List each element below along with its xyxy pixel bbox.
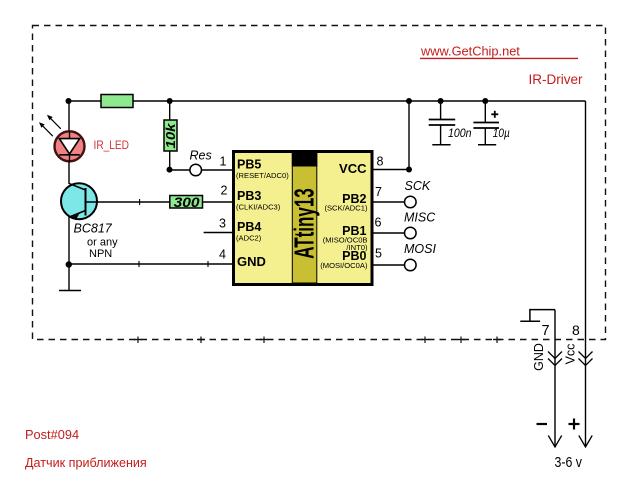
transistor Q1 BC817 bbox=[61, 183, 97, 220]
svg-text:(MOSI/OC0A): (MOSI/OC0A) bbox=[320, 261, 368, 270]
svg-text:Vcc: Vcc bbox=[564, 344, 578, 365]
svg-text:3: 3 bbox=[219, 217, 226, 231]
resistor R2 10k bbox=[163, 120, 178, 151]
svg-text:300: 300 bbox=[174, 194, 200, 210]
node junction top of LED branch bbox=[66, 98, 72, 104]
junction tick on base wire bbox=[139, 199, 141, 205]
wire 10k bottom to Res pad bbox=[170, 151, 190, 170]
svg-text:Датчик приближения: Датчик приближения bbox=[25, 456, 147, 470]
svg-text:10µ: 10µ bbox=[493, 126, 510, 140]
svg-text:GND: GND bbox=[237, 254, 266, 269]
svg-text:PB5: PB5 bbox=[237, 158, 261, 172]
wire pin 5 bbox=[373, 264, 405, 266]
svg-text:VCC: VCC bbox=[339, 161, 367, 176]
wire Vcc top rail bbox=[69, 100, 586, 102]
wire LED anode bbox=[68, 101, 70, 131]
svg-text:IR-Driver: IR-Driver bbox=[529, 72, 583, 87]
wire pin 8 VCC bbox=[373, 101, 410, 170]
svg-text:IR_LED: IR_LED bbox=[94, 140, 130, 152]
node junction pin8 corner bbox=[406, 167, 412, 173]
node junction pin8/rail bbox=[406, 98, 412, 104]
wire GND connector hook bbox=[520, 310, 555, 322]
svg-text:8: 8 bbox=[377, 154, 384, 168]
op-amp U1 ATtiny13 body bbox=[234, 151, 373, 285]
wire Res pad to pin 1 bbox=[202, 169, 233, 171]
svg-text:GND: GND bbox=[532, 343, 546, 371]
node junction at 10k bottom bbox=[167, 167, 173, 173]
wire GND connector vertical bbox=[554, 310, 556, 447]
LED emission arrows bbox=[39, 115, 61, 136]
junction tick on GND wire 2 bbox=[207, 261, 209, 267]
wire emitter down bbox=[68, 217, 70, 266]
dashed schematic frame bbox=[33, 26, 606, 344]
svg-text:(ADC2): (ADC2) bbox=[236, 234, 262, 243]
plus sign bbox=[569, 419, 580, 430]
minus sign bbox=[537, 423, 548, 425]
connector chevrons GND bbox=[548, 352, 562, 366]
arrowhead Vcc line bbox=[579, 436, 592, 448]
svg-text:100n: 100n bbox=[448, 126, 472, 140]
label www.GetChip.net bbox=[420, 43, 578, 58]
connector chevrons Vcc bbox=[579, 352, 593, 366]
wire pin 6 bbox=[373, 232, 405, 234]
resistor R (top, unlabeled) bbox=[101, 95, 133, 108]
svg-text:8: 8 bbox=[572, 322, 580, 338]
resistor R3 300 bbox=[170, 194, 203, 210]
svg-text:(CLKI/ADC3): (CLKI/ADC3) bbox=[236, 203, 281, 212]
pad MOSI bbox=[405, 259, 417, 271]
wire base to 300 bbox=[86, 201, 171, 203]
ground bbox=[59, 265, 81, 291]
svg-text:SCK: SCK bbox=[405, 179, 431, 193]
arrowhead GND line bbox=[548, 436, 561, 448]
svg-text:7: 7 bbox=[375, 185, 382, 199]
node ground junction bbox=[66, 261, 72, 267]
pad MISC bbox=[405, 227, 417, 239]
svg-text:NPN: NPN bbox=[89, 248, 112, 260]
svg-text:ATtiny13: ATtiny13 bbox=[288, 188, 319, 259]
svg-text:7: 7 bbox=[542, 323, 550, 339]
capacitor C1 100n bbox=[429, 98, 456, 145]
svg-text:MOSI: MOSI bbox=[404, 242, 436, 256]
junction tick on GND wire bbox=[138, 261, 140, 267]
wire 10k top bbox=[169, 101, 171, 120]
svg-text:BC817: BC817 bbox=[74, 222, 113, 236]
svg-text:6: 6 bbox=[375, 216, 382, 230]
svg-text:1: 1 bbox=[220, 155, 227, 169]
svg-text:or any: or any bbox=[87, 237, 118, 249]
svg-text:www.GetChip.net: www.GetChip.net bbox=[420, 43, 520, 58]
svg-text:MISC: MISC bbox=[404, 211, 436, 225]
svg-text:PB4: PB4 bbox=[237, 220, 261, 234]
wire 300 to pin 2 bbox=[203, 201, 233, 203]
svg-text:PB3: PB3 bbox=[237, 189, 261, 203]
svg-text:5: 5 bbox=[375, 247, 382, 261]
pad SCK bbox=[405, 196, 417, 208]
svg-text:10k: 10k bbox=[163, 123, 178, 149]
wire GND row to IC pin 4 bbox=[69, 263, 233, 265]
svg-text:3-6 v: 3-6 v bbox=[555, 454, 583, 471]
svg-text:(SCK/ADC1): (SCK/ADC1) bbox=[324, 203, 368, 212]
wire LED cathode to transistor collector bbox=[68, 162, 70, 184]
pad Res bbox=[190, 164, 202, 176]
svg-text:2: 2 bbox=[221, 184, 228, 198]
svg-text:Post#094: Post#094 bbox=[25, 427, 79, 442]
svg-text:(RESET/ADC0): (RESET/ADC0) bbox=[236, 171, 289, 180]
wire pin 3 stub bbox=[204, 232, 233, 234]
LED D1 IR_LED bbox=[55, 131, 85, 163]
svg-text:4: 4 bbox=[219, 248, 226, 262]
capacitor C2 10u bbox=[473, 98, 499, 145]
node junction top of 10k branch bbox=[167, 98, 173, 104]
wire pin 7 bbox=[373, 201, 405, 203]
wire Vcc right vertical drop bbox=[585, 101, 587, 447]
svg-text:Res: Res bbox=[190, 149, 212, 163]
